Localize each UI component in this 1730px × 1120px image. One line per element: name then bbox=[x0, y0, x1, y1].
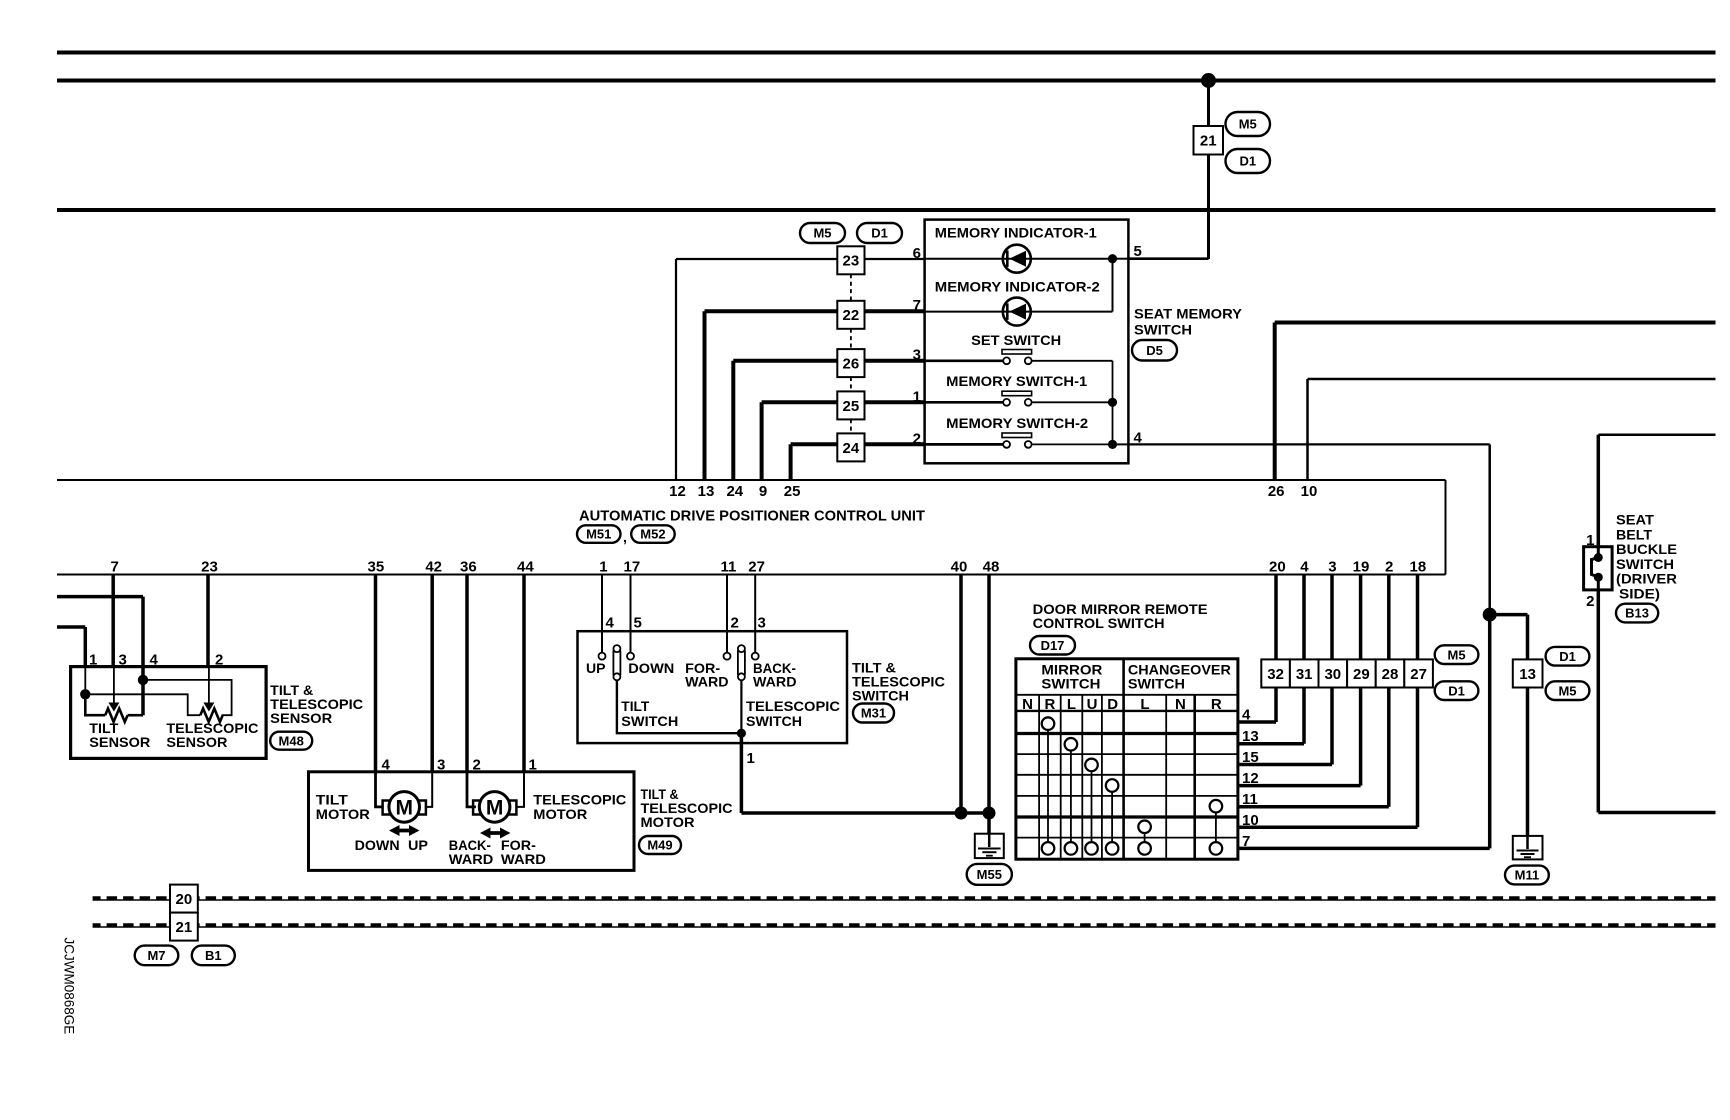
wire motor pin2 internal bbox=[467, 772, 476, 807]
svg-text:2: 2 bbox=[215, 652, 223, 669]
svg-text:D1: D1 bbox=[1448, 683, 1465, 698]
svg-text:SWITCH: SWITCH bbox=[1128, 675, 1185, 691]
tilt sensor wiper bbox=[113, 667, 115, 703]
wire riser to ground junction bbox=[1488, 615, 1492, 849]
svg-text:SIDE): SIDE) bbox=[1619, 586, 1660, 602]
connector 22 bbox=[837, 301, 864, 329]
svg-text:AUTOMATIC DRIVE POSITIONER CON: AUTOMATIC DRIVE POSITIONER CONTROL UNIT bbox=[579, 508, 925, 525]
svg-text:SEAT: SEAT bbox=[1616, 512, 1654, 528]
svg-text:R: R bbox=[1044, 696, 1055, 713]
wire ctrl pin40 down bbox=[959, 575, 963, 814]
svg-text:27: 27 bbox=[748, 559, 765, 576]
svg-text:MEMORY INDICATOR-1: MEMORY INDICATOR-1 bbox=[935, 225, 1097, 241]
svg-text:D1: D1 bbox=[871, 226, 888, 241]
svg-text:BELT: BELT bbox=[1616, 526, 1652, 542]
connector label M31 bbox=[853, 704, 894, 723]
connector label D5 bbox=[1132, 340, 1177, 361]
svg-text:7: 7 bbox=[111, 559, 119, 576]
svg-text:24: 24 bbox=[843, 440, 860, 457]
buckle switch blade bbox=[1592, 558, 1599, 578]
svg-text:7: 7 bbox=[913, 297, 921, 314]
wire switch common run bbox=[741, 811, 989, 815]
svg-text:1: 1 bbox=[747, 750, 755, 767]
connector 23 bbox=[837, 246, 864, 274]
svg-text:M48: M48 bbox=[279, 733, 304, 748]
seat memory switch D5 box bbox=[925, 220, 1129, 464]
link column R bbox=[1047, 730, 1049, 842]
svg-text:15: 15 bbox=[1242, 749, 1259, 766]
wire sensor pin1 internal bbox=[84, 667, 86, 695]
svg-text:M55: M55 bbox=[977, 867, 1002, 882]
junction switch common bbox=[737, 729, 746, 738]
wire ctrl pin20 to table pin4 bbox=[1274, 575, 1278, 723]
svg-text:JCJWM0868GE: JCJWM0868GE bbox=[62, 938, 77, 1035]
memory indicator-1 LED bbox=[1003, 245, 1031, 273]
svg-text:17: 17 bbox=[624, 559, 641, 576]
svg-text:13: 13 bbox=[698, 483, 715, 500]
svg-text:4: 4 bbox=[150, 652, 159, 669]
svg-text:21: 21 bbox=[176, 919, 193, 936]
svg-text:11: 11 bbox=[1242, 791, 1258, 808]
up contact bbox=[599, 653, 606, 660]
telescopic sensor wiper bbox=[208, 667, 210, 703]
svg-text:D1: D1 bbox=[1559, 649, 1576, 664]
mirror switch table D17 bbox=[1016, 659, 1238, 859]
contact row7 R bbox=[1042, 842, 1055, 855]
wire set to ms1 node bbox=[1112, 361, 1114, 403]
wire ms1 to ms2 node bbox=[1112, 402, 1114, 444]
wire node to connector 13 bbox=[1490, 613, 1528, 617]
wire node to tilt left end bbox=[85, 694, 105, 715]
svg-text:SEAT MEMORY: SEAT MEMORY bbox=[1134, 305, 1243, 321]
svg-text:BUCKLE: BUCKLE bbox=[1616, 541, 1677, 557]
svg-text:CONTROL SWITCH: CONTROL SWITCH bbox=[1033, 615, 1165, 631]
svg-text:23: 23 bbox=[843, 253, 860, 270]
connector label M5 (body harness) bbox=[1546, 681, 1590, 700]
contact row7 D bbox=[1106, 842, 1119, 855]
svg-text:10: 10 bbox=[1242, 812, 1259, 829]
svg-text:4: 4 bbox=[382, 757, 391, 774]
svg-text:1: 1 bbox=[913, 389, 921, 406]
svg-text:12: 12 bbox=[669, 483, 686, 500]
telescopic motor direction arrow bbox=[480, 828, 511, 839]
svg-text:25: 25 bbox=[784, 483, 801, 500]
tilt & telescopic sensor M48 box bbox=[71, 667, 267, 759]
svg-text:32: 32 bbox=[1267, 666, 1284, 683]
svg-text:MEMORY INDICATOR-2: MEMORY INDICATOR-2 bbox=[935, 278, 1100, 294]
connector 21 (M5/D1) bbox=[1194, 126, 1224, 155]
memory indicator-2 LED wire bbox=[925, 311, 1113, 313]
set switch contacts bbox=[1003, 357, 1010, 364]
junction ground node bbox=[1483, 608, 1497, 622]
svg-text:M52: M52 bbox=[640, 527, 665, 542]
dashed connector link 26-25 bbox=[850, 377, 852, 391]
connector 24 bbox=[837, 433, 864, 461]
contact L row6 bbox=[1138, 821, 1151, 834]
connector label M49 bbox=[639, 836, 681, 854]
buckle switch contacts bbox=[1597, 547, 1600, 558]
connector 28 bbox=[1376, 659, 1405, 687]
dashed connector link 23-22 bbox=[850, 274, 852, 301]
svg-text:MOTOR: MOTOR bbox=[316, 806, 370, 822]
ground M11 bbox=[1513, 836, 1543, 860]
svg-text:TILT: TILT bbox=[621, 698, 649, 714]
svg-text:2: 2 bbox=[1586, 593, 1594, 610]
svg-text:M5: M5 bbox=[1239, 117, 1257, 132]
bus line 2 bbox=[93, 923, 1716, 928]
svg-text:M49: M49 bbox=[647, 838, 672, 853]
svg-text:36: 36 bbox=[460, 559, 477, 576]
svg-text:24: 24 bbox=[726, 483, 743, 500]
svg-text:B1: B1 bbox=[205, 948, 222, 963]
wire ctrl pin26 rail (y=322) bbox=[1275, 321, 1716, 325]
svg-text:DOWN: DOWN bbox=[628, 660, 674, 676]
connector 25 bbox=[837, 391, 864, 419]
svg-text:N: N bbox=[1022, 696, 1033, 713]
set switch bar bbox=[1002, 350, 1032, 355]
wire pin6 run (ctrl pin12 to memory pin6) bbox=[676, 258, 837, 260]
svg-text:2: 2 bbox=[473, 757, 481, 774]
wire ctrl pin35 to motor pin4 bbox=[374, 575, 378, 772]
svg-text:40: 40 bbox=[951, 559, 968, 576]
svg-text:26: 26 bbox=[1268, 483, 1285, 500]
telescopic motor M2 bbox=[479, 792, 510, 823]
junction sensor pin1 node bbox=[80, 689, 90, 699]
svg-text:3: 3 bbox=[1328, 559, 1336, 576]
svg-text:M5: M5 bbox=[1448, 647, 1466, 662]
svg-text:MOTOR: MOTOR bbox=[533, 806, 587, 822]
svg-text:D5: D5 bbox=[1146, 343, 1163, 358]
svg-text:44: 44 bbox=[517, 559, 534, 576]
svg-text:UP: UP bbox=[586, 660, 606, 676]
svg-text:3: 3 bbox=[119, 652, 127, 669]
connector 29 bbox=[1347, 659, 1376, 687]
svg-text:9: 9 bbox=[759, 483, 767, 500]
svg-text:5: 5 bbox=[1134, 243, 1142, 260]
svg-text:25: 25 bbox=[843, 398, 860, 415]
svg-text:21: 21 bbox=[1200, 133, 1217, 150]
svg-text:2: 2 bbox=[913, 431, 921, 448]
link column R2 bbox=[1215, 813, 1217, 843]
forward contact bbox=[724, 653, 731, 660]
wire ctrl pin18 to table pin10 bbox=[1416, 575, 1420, 828]
svg-text:M51: M51 bbox=[586, 527, 611, 542]
svg-text:SWITCH: SWITCH bbox=[621, 713, 678, 729]
contact U row3 bbox=[1085, 759, 1098, 772]
contact row7 L bbox=[1065, 842, 1078, 855]
svg-text:MOTOR: MOTOR bbox=[641, 814, 695, 830]
svg-text:1: 1 bbox=[529, 757, 537, 774]
wire ctrl pin19 to table pin12 bbox=[1359, 575, 1363, 786]
wire memory switch-1 bbox=[925, 401, 1004, 404]
wire memory pin4 to ground node bbox=[1128, 443, 1489, 445]
svg-text:SENSOR: SENSOR bbox=[89, 734, 150, 750]
wire pin5 to box edge bbox=[1113, 258, 1129, 260]
connector label D1 bbox=[1226, 149, 1271, 173]
memory switch-1 bar bbox=[1002, 391, 1032, 396]
svg-text:12: 12 bbox=[1242, 770, 1259, 787]
wire pin7 run (ctrl pin13 to memory pin7) bbox=[705, 309, 838, 313]
svg-text:R: R bbox=[1211, 696, 1222, 713]
seat belt buckle switch B13 box bbox=[1584, 547, 1613, 590]
svg-text:13: 13 bbox=[1519, 666, 1536, 683]
ground M55 bbox=[975, 834, 1004, 858]
wire feed to sensor pin1 bbox=[57, 625, 85, 629]
contact row7 U bbox=[1085, 842, 1098, 855]
wire ground rail (y=210) bbox=[57, 208, 1716, 212]
svg-text:20: 20 bbox=[1269, 559, 1286, 576]
table pin 7 stub bbox=[1238, 847, 1490, 851]
contact row7 L2 bbox=[1138, 842, 1151, 855]
svg-text:3: 3 bbox=[437, 757, 445, 774]
svg-text:1: 1 bbox=[1586, 532, 1594, 549]
svg-text:N: N bbox=[1175, 696, 1186, 713]
connector 13 bbox=[1513, 659, 1543, 687]
svg-text:M: M bbox=[395, 796, 413, 819]
wire memory switch-2 bbox=[925, 443, 1004, 446]
tilt sensor potentiometer resistor bbox=[105, 709, 127, 722]
junction pin48 node bbox=[983, 807, 996, 820]
automatic drive positioner control unit M51/M52 box bbox=[57, 479, 1446, 481]
svg-text:M11: M11 bbox=[1515, 868, 1540, 883]
tilt switch slider bbox=[613, 645, 620, 652]
wire feed to sensor pin4 bbox=[57, 595, 143, 599]
table pin 11 stub bbox=[1238, 805, 1389, 809]
contact L row2 bbox=[1065, 738, 1078, 751]
wire ctrl pin1 to switch pin4 bbox=[601, 575, 603, 653]
connector label M48 bbox=[270, 732, 312, 750]
svg-text:4: 4 bbox=[606, 615, 615, 632]
memory indicator-1 LED wire bbox=[925, 258, 1113, 260]
svg-text:26: 26 bbox=[843, 356, 860, 373]
wire pin3 run (ctrl pin24 to memory pin3) bbox=[733, 359, 837, 363]
svg-text:L: L bbox=[1140, 696, 1149, 713]
table pin 4 stub bbox=[1238, 720, 1276, 724]
connector 31 bbox=[1290, 659, 1319, 687]
link column L bbox=[1070, 751, 1072, 843]
svg-text:SET SWITCH: SET SWITCH bbox=[971, 332, 1061, 348]
svg-text:M5: M5 bbox=[1558, 683, 1576, 698]
svg-text:,: , bbox=[623, 529, 627, 545]
connector 26 bbox=[837, 349, 864, 377]
wire node to telescopic right end bbox=[143, 680, 232, 715]
connector label M7 bbox=[135, 946, 179, 966]
connector 27 bbox=[1404, 659, 1433, 687]
svg-text:D: D bbox=[1107, 696, 1118, 713]
wire ctrl pin23 to sensor pin2 bbox=[206, 575, 210, 667]
connector label D1 (mirror harness) bbox=[1435, 681, 1479, 700]
contact D row4 bbox=[1106, 779, 1119, 792]
svg-text:D17: D17 bbox=[1041, 638, 1065, 653]
wire ctrl pin17 to switch pin5 bbox=[630, 575, 632, 653]
wire buckle pin2 down bbox=[1597, 590, 1601, 813]
svg-text:42: 42 bbox=[425, 559, 442, 576]
svg-text:4: 4 bbox=[1242, 707, 1251, 724]
memory switch-2 contacts bbox=[1003, 441, 1010, 448]
wire telescopic slider to common bbox=[740, 680, 742, 733]
wire power rail 1 (top) bbox=[57, 51, 1716, 55]
wire motor pin1 internal bbox=[517, 772, 525, 807]
tilt & telescopic switch M31 box bbox=[578, 631, 848, 743]
connector label D1 (body harness) bbox=[1546, 647, 1590, 666]
svg-text:M31: M31 bbox=[861, 706, 886, 721]
wire ctrl pin2 to table pin11 bbox=[1387, 575, 1391, 807]
svg-text:M5: M5 bbox=[813, 226, 831, 241]
link column D bbox=[1111, 792, 1113, 842]
telescopic switch slider bbox=[738, 645, 745, 652]
table pin 13 stub bbox=[1238, 742, 1304, 746]
svg-text:48: 48 bbox=[983, 559, 1000, 576]
wire ctrl pin27 to switch pin3 bbox=[754, 575, 756, 653]
junction on rail 2 bbox=[1201, 73, 1216, 88]
memory switch-1 contacts bbox=[1003, 399, 1010, 406]
wire ctrl pin10 rail (y=379) bbox=[1308, 378, 1716, 381]
connector label M5 bbox=[1226, 112, 1271, 136]
wire buckle pin1 rail bbox=[1598, 433, 1715, 436]
link column U bbox=[1091, 771, 1093, 842]
svg-text:2: 2 bbox=[731, 615, 739, 632]
svg-text:5: 5 bbox=[634, 615, 642, 632]
svg-text:U: U bbox=[1087, 696, 1098, 713]
junction ms1 node bbox=[1108, 398, 1117, 407]
connector label M5 (memory harness) bbox=[800, 223, 845, 243]
svg-text:WARD: WARD bbox=[449, 851, 494, 867]
wire ctrl pin4 to table pin13 bbox=[1302, 575, 1306, 744]
contact R row1 bbox=[1042, 717, 1055, 730]
connector 32 bbox=[1261, 659, 1290, 687]
svg-text:SWITCH: SWITCH bbox=[1041, 675, 1100, 691]
junction sensor pin4 node bbox=[138, 675, 148, 685]
svg-text:4: 4 bbox=[1300, 559, 1309, 576]
svg-text:28: 28 bbox=[1382, 666, 1399, 683]
contact row7 R2 bbox=[1210, 842, 1223, 855]
svg-text:SWITCH: SWITCH bbox=[746, 713, 802, 729]
svg-text:27: 27 bbox=[1410, 666, 1427, 683]
svg-text:20: 20 bbox=[176, 891, 193, 908]
wire ctrl pin11 to switch pin2 bbox=[726, 575, 728, 653]
wire ctrl pin48 down bbox=[987, 575, 991, 834]
svg-text:22: 22 bbox=[843, 307, 860, 324]
svg-text:19: 19 bbox=[1353, 559, 1370, 576]
junction memory pin5 node bbox=[1108, 254, 1117, 263]
wire node to telescopic left end bbox=[85, 694, 200, 715]
connector label B13 bbox=[1616, 604, 1658, 623]
dashed connector link 22-26 bbox=[850, 329, 852, 349]
connector 20 (bus) bbox=[170, 885, 198, 913]
svg-text:35: 35 bbox=[368, 559, 385, 576]
wire power rail 2 bbox=[57, 79, 1716, 83]
contact R row5 bbox=[1210, 800, 1223, 813]
svg-text:L: L bbox=[1067, 696, 1076, 713]
down contact bbox=[627, 653, 634, 660]
svg-text:TELESCOPIC: TELESCOPIC bbox=[746, 698, 840, 714]
connector label M5 (mirror harness) bbox=[1435, 645, 1479, 664]
wire riser x=1208 rail2 to memory pin5 bbox=[1207, 81, 1210, 260]
svg-text:M7: M7 bbox=[147, 948, 165, 963]
wire pin1 run (ctrl pin9 to memory pin1) bbox=[762, 400, 838, 404]
svg-text:SWITCH: SWITCH bbox=[1616, 556, 1674, 572]
svg-text:31: 31 bbox=[1296, 666, 1313, 683]
svg-text:M: M bbox=[486, 796, 504, 819]
svg-text:11: 11 bbox=[720, 559, 736, 576]
memory switch-2 bar bbox=[1002, 433, 1032, 438]
backward contact bbox=[752, 653, 759, 660]
svg-text:(DRIVER: (DRIVER bbox=[1616, 571, 1677, 587]
ground label M55 bbox=[967, 864, 1012, 885]
wire ctrl pin7 to sensor pin3 bbox=[111, 575, 115, 667]
wire ctrl pin3 to table pin15 bbox=[1330, 575, 1334, 765]
wire ctrl pin44 to motor pin1 bbox=[522, 575, 526, 772]
junction ms2 / pin4 node bbox=[1108, 440, 1117, 449]
svg-text:WARD: WARD bbox=[753, 674, 797, 690]
link column L2 bbox=[1144, 833, 1146, 842]
svg-text:B13: B13 bbox=[1625, 606, 1649, 621]
wire indicator-2 to node bbox=[1112, 259, 1114, 312]
connector label D1 (memory harness) bbox=[857, 223, 902, 243]
svg-text:23: 23 bbox=[201, 559, 218, 576]
svg-text:MEMORY SWITCH-2: MEMORY SWITCH-2 bbox=[946, 415, 1088, 431]
svg-text:SWITCH: SWITCH bbox=[1134, 321, 1192, 337]
wire motor pin4 internal bbox=[376, 772, 384, 807]
svg-text:WARD: WARD bbox=[685, 674, 729, 690]
memory indicator-2 LED bbox=[1003, 298, 1031, 326]
wire ctrl pin42 to motor pin3 bbox=[430, 575, 434, 772]
telescopic sensor potentiometer resistor bbox=[200, 709, 222, 722]
wire ctrl pin36 to motor pin2 bbox=[465, 575, 469, 772]
svg-text:3: 3 bbox=[758, 615, 766, 632]
svg-text:29: 29 bbox=[1353, 666, 1370, 683]
connector label M52 bbox=[631, 525, 675, 543]
wire set switch bbox=[925, 359, 1004, 362]
tilt motor direction arrow bbox=[389, 825, 420, 836]
ground label M11 bbox=[1505, 866, 1549, 885]
tilt & telescopic motor M49 box bbox=[309, 772, 635, 871]
tilt motor M1 bbox=[389, 792, 420, 823]
dashed connector link 25-24 bbox=[850, 419, 852, 433]
table pin 12 stub bbox=[1238, 784, 1361, 788]
svg-text:10: 10 bbox=[1301, 483, 1318, 500]
wire pin2 run (ctrl pin25 to memory pin2) bbox=[791, 442, 838, 446]
svg-text:3: 3 bbox=[913, 347, 921, 364]
svg-text:18: 18 bbox=[1410, 559, 1427, 576]
junction pin40 node bbox=[955, 807, 968, 820]
wire pin4 to box edge bbox=[1113, 443, 1129, 445]
svg-text:UP: UP bbox=[408, 837, 428, 853]
bus line 1 bbox=[93, 896, 1716, 901]
svg-text:SENSOR: SENSOR bbox=[270, 710, 332, 726]
connector label B1 bbox=[192, 946, 235, 966]
wire tilt slider to common bbox=[617, 680, 742, 733]
svg-text:30: 30 bbox=[1324, 666, 1341, 683]
svg-text:SWITCH: SWITCH bbox=[852, 688, 909, 704]
table pin 15 stub bbox=[1238, 763, 1332, 767]
svg-text:1: 1 bbox=[599, 559, 607, 576]
svg-text:7: 7 bbox=[1242, 833, 1250, 850]
connector label M51 bbox=[577, 525, 621, 543]
wire switch pin1 down bbox=[740, 733, 744, 813]
svg-text:2: 2 bbox=[1385, 559, 1393, 576]
connector label D17 bbox=[1030, 636, 1075, 655]
svg-text:MEMORY SWITCH-1: MEMORY SWITCH-1 bbox=[946, 373, 1087, 389]
svg-text:WARD: WARD bbox=[501, 851, 546, 867]
connector 30 bbox=[1319, 659, 1348, 687]
wire motor pin3 internal bbox=[425, 772, 432, 807]
svg-text:6: 6 bbox=[913, 245, 921, 262]
table pin 10 stub bbox=[1238, 826, 1418, 830]
svg-text:D1: D1 bbox=[1239, 154, 1256, 169]
connector 21 (bus) bbox=[170, 913, 198, 941]
svg-text:13: 13 bbox=[1242, 728, 1259, 745]
